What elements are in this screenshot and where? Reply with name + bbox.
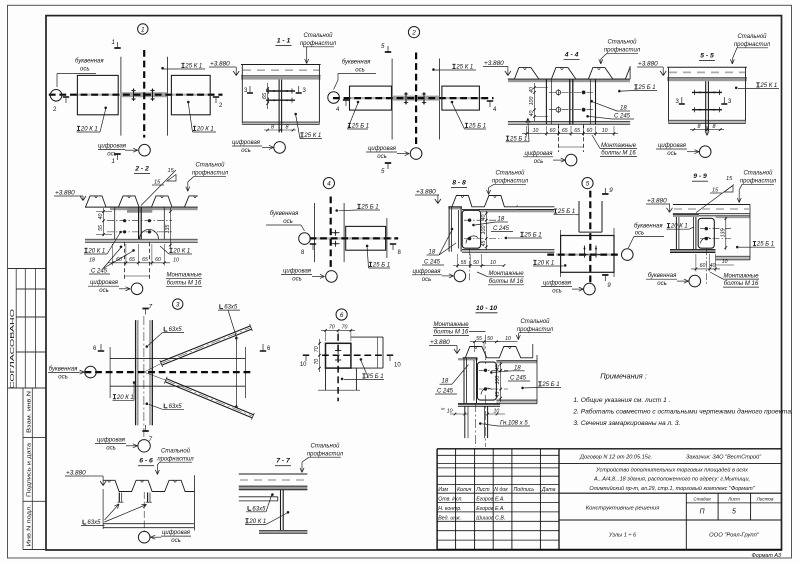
svg-text:25 Б 1: 25 Б 1 [372, 263, 390, 269]
svg-text:Монтажные: Монтажные [166, 273, 202, 279]
svg-text:буквенная: буквенная [75, 59, 104, 65]
svg-text:10: 10 [173, 257, 179, 263]
svg-text:+3.880: +3.880 [210, 61, 230, 68]
svg-text:60: 60 [700, 263, 706, 269]
svg-text:20 К 1: 20 К 1 [80, 127, 98, 133]
svg-text:40: 40 [529, 111, 535, 117]
svg-text:профнастил: профнастил [492, 179, 529, 185]
svg-text:25 Б 1: 25 Б 1 [541, 382, 559, 388]
svg-text:25 Б 1: 25 Б 1 [365, 374, 383, 380]
svg-text:Листов: Листов [756, 497, 774, 502]
svg-text:Стальной: Стальной [607, 39, 637, 46]
svg-text:8: 8 [698, 124, 701, 130]
svg-text:Заказчик: ЗАО "ВестСтрой": Заказчик: ЗАО "ВестСтрой" [686, 454, 762, 461]
svg-text:ООО "Роял-Групп": ООО "Роял-Групп" [709, 533, 760, 539]
svg-text:профнастил: профнастил [604, 48, 641, 54]
svg-text:65: 65 [142, 257, 148, 263]
svg-text:цифровая: цифровая [90, 280, 119, 286]
svg-text:3. Сечения замаркированы на: 3. Сечения замаркированы на л. 3. [573, 420, 680, 427]
svg-text:Стальной: Стальной [161, 447, 191, 454]
svg-text:60: 60 [587, 128, 593, 134]
svg-text:4: 4 [327, 181, 331, 188]
svg-text:1: 1 [112, 158, 115, 165]
svg-text:Колич: Колич [457, 487, 472, 493]
svg-text:буквенная: буквенная [634, 223, 663, 229]
svg-text:20 К 1: 20 К 1 [670, 224, 688, 230]
svg-text:18: 18 [442, 379, 449, 385]
svg-text:профнастил: профнастил [300, 41, 337, 47]
svg-text:профнастил: профнастил [734, 42, 771, 48]
svg-text:20 К 1: 20 К 1 [87, 249, 105, 255]
svg-text:+3.880: +3.880 [638, 61, 658, 68]
svg-text:45: 45 [495, 392, 501, 398]
svg-text:ось: ось [292, 277, 302, 283]
svg-text:Узлы 1 ÷ 6: Узлы 1 ÷ 6 [608, 533, 637, 539]
svg-text:25 К 1: 25 К 1 [303, 133, 321, 139]
svg-text:15: 15 [154, 180, 161, 186]
svg-text:18: 18 [620, 106, 627, 112]
svg-text:20 К 1: 20 К 1 [172, 249, 190, 255]
svg-text:Вед. инж.: Вед. инж. [438, 516, 461, 522]
svg-text:Стальной: Стальной [495, 170, 525, 177]
svg-text:С 245: С 245 [510, 376, 527, 382]
svg-text:4 - 4: 4 - 4 [564, 52, 579, 59]
svg-text:5: 5 [732, 509, 736, 516]
svg-text:5 - 5: 5 - 5 [700, 53, 714, 60]
svg-text:ось: ось [534, 159, 544, 165]
svg-text:2: 2 [411, 30, 416, 37]
svg-text:50: 50 [473, 260, 479, 266]
svg-text:цифровая: цифровая [162, 530, 191, 536]
svg-text:ось: ось [377, 154, 387, 160]
svg-text:63х5: 63х5 [169, 327, 183, 333]
svg-text:25 Б 1: 25 Б 1 [557, 209, 575, 215]
svg-text:Формат А3: Формат А3 [752, 553, 782, 559]
svg-text:ось: ось [355, 68, 365, 74]
svg-text:болты М 16: болты М 16 [724, 281, 759, 287]
svg-text:25 К 1: 25 К 1 [455, 65, 473, 71]
svg-text:25 Б 1: 25 Б 1 [523, 233, 541, 239]
svg-text:8: 8 [271, 124, 274, 130]
svg-text:25 Б 1: 25 Б 1 [360, 205, 378, 211]
svg-text:А...А/4,8...18 здания, располо: А...А/4,8...18 здания, расположенного по… [593, 477, 750, 483]
svg-text:N док: N док [494, 487, 508, 493]
svg-text:135: 135 [720, 229, 726, 238]
svg-text:Стадия: Стадия [693, 497, 711, 502]
svg-text:6: 6 [340, 312, 344, 319]
svg-text:Монтажные: Монтажные [723, 274, 759, 280]
svg-text:63х5: 63х5 [87, 520, 101, 526]
svg-text:45: 45 [481, 241, 487, 247]
svg-text:70: 70 [342, 325, 348, 331]
svg-text:+3.880: +3.880 [55, 190, 75, 197]
svg-text:ось: ось [80, 67, 90, 73]
svg-text:С 245: С 245 [493, 226, 510, 232]
svg-text:100: 100 [481, 226, 487, 235]
svg-text:Стальной: Стальной [303, 32, 333, 39]
svg-text:ось: ось [283, 219, 293, 225]
svg-text:100: 100 [529, 97, 535, 106]
svg-text:25 К 1: 25 К 1 [759, 83, 777, 89]
svg-text:18: 18 [514, 365, 521, 371]
svg-text:Егоров Е.А.: Егоров Е.А. [476, 506, 505, 512]
svg-text:20 К 1: 20 К 1 [196, 127, 214, 133]
svg-text:63х5: 63х5 [169, 404, 183, 410]
svg-text:ось: ось [667, 151, 677, 157]
svg-text:5: 5 [586, 181, 590, 188]
svg-text:1 - 1: 1 - 1 [277, 38, 291, 45]
svg-text:50: 50 [487, 336, 493, 342]
svg-text:7: 7 [149, 436, 153, 443]
svg-text:ось: ось [241, 148, 251, 154]
svg-text:40: 40 [710, 263, 716, 269]
svg-text:25 Б 1: 25 Б 1 [509, 136, 527, 142]
svg-text:10 - 10: 10 - 10 [476, 305, 497, 312]
svg-text:1: 1 [141, 26, 145, 33]
svg-text:буквенная: буквенная [270, 211, 299, 217]
svg-text:С 245: С 245 [424, 260, 441, 266]
svg-text:40: 40 [495, 365, 501, 371]
svg-text:Устройство дополнительных торг: Устройство дополнительных торговых площа… [595, 467, 748, 474]
svg-text:ось: ось [635, 230, 645, 236]
svg-text:2: 2 [53, 106, 57, 113]
svg-text:ось: ось [107, 152, 117, 158]
svg-text:+3.880: +3.880 [484, 60, 504, 67]
svg-text:Подпись: Подпись [514, 487, 535, 493]
svg-text:60: 60 [155, 257, 161, 263]
svg-text:25 Б 1: 25 Б 1 [468, 124, 486, 130]
svg-text:60: 60 [550, 128, 556, 134]
svg-text:5: 5 [441, 407, 446, 410]
svg-text:+3.880: +3.880 [416, 189, 436, 196]
svg-text:10: 10 [533, 128, 539, 134]
svg-text:С 245: С 245 [91, 269, 108, 275]
svg-text:цифровая: цифровая [97, 437, 126, 443]
svg-text:63х5: 63х5 [252, 506, 266, 512]
svg-text:цифровая: цифровая [232, 140, 261, 146]
svg-text:цифровая: цифровая [525, 151, 554, 157]
svg-text:цифровая: цифровая [543, 280, 572, 286]
svg-text:8: 8 [713, 124, 716, 130]
svg-text:25 К 1: 25 К 1 [184, 64, 202, 70]
svg-text:10: 10 [602, 128, 608, 134]
svg-text:40: 40 [98, 214, 104, 220]
svg-text:8: 8 [286, 124, 289, 130]
svg-text:Взам. инв.N: Взам. инв.N [26, 391, 32, 433]
svg-text:10: 10 [722, 259, 728, 265]
svg-text:ось: ось [552, 288, 562, 294]
svg-text:Изм: Изм [438, 487, 448, 493]
svg-text:25 Б 1: 25 Б 1 [637, 85, 655, 91]
svg-text:Олимпийский пр-т, вл.29, стр.1: Олимпийский пр-т, вл.29, стр.1, торговый… [589, 485, 755, 492]
svg-text:цифровая: цифровая [413, 269, 442, 275]
svg-text:цифровая: цифровая [283, 269, 312, 275]
svg-text:буквенная: буквенная [648, 273, 677, 279]
svg-text:ось: ось [99, 288, 109, 294]
svg-text:Стальной: Стальной [195, 162, 225, 169]
svg-text:профнастил: профнастил [157, 456, 194, 462]
svg-text:Стальной: Стальной [520, 318, 550, 325]
svg-text:болты М 16: болты М 16 [489, 279, 524, 285]
svg-text:ось: ось [106, 445, 116, 451]
svg-text:15: 15 [168, 168, 175, 174]
svg-text:20 К 1: 20 К 1 [248, 519, 266, 525]
svg-text:65: 65 [574, 128, 580, 134]
svg-text:8 - 8: 8 - 8 [452, 180, 466, 187]
svg-text:профнастил: профнастил [740, 179, 777, 185]
svg-text:40: 40 [529, 87, 535, 93]
svg-text:25 Б 1: 25 Б 1 [756, 242, 774, 248]
svg-text:болты М 16: болты М 16 [434, 329, 469, 335]
svg-text:40: 40 [481, 215, 487, 221]
svg-text:Егоров Е.А.: Егоров Е.А. [476, 497, 505, 503]
svg-text:+3.880: +3.880 [66, 470, 86, 477]
svg-text:2. Работать совместно с ос: 2. Работать совместно с остальными черте… [572, 408, 793, 416]
svg-text:Конструктивные решения: Конструктивные решения [586, 506, 660, 512]
svg-text:100: 100 [495, 376, 501, 385]
svg-text:9 - 9: 9 - 9 [693, 173, 707, 180]
svg-text:18: 18 [498, 217, 505, 223]
svg-text:профнастил: профнастил [517, 327, 554, 333]
svg-text:70: 70 [329, 325, 335, 331]
svg-text:Стальной: Стальной [310, 442, 340, 449]
svg-text:5: 5 [381, 43, 385, 50]
svg-text:9: 9 [609, 187, 613, 194]
svg-text:Отв. Исп.: Отв. Исп. [438, 497, 463, 503]
svg-text:ось: ось [171, 538, 181, 544]
svg-text:55: 55 [476, 336, 482, 342]
svg-text:болты М 16: болты М 16 [601, 151, 636, 157]
svg-text:70: 70 [314, 346, 320, 352]
svg-text:профнастил: профнастил [192, 171, 229, 177]
svg-text:Договор N 12 от 20.05.15г.: Договор N 12 от 20.05.15г. [579, 455, 652, 461]
svg-text:10: 10 [394, 363, 401, 369]
svg-text:Стальной: Стальной [743, 170, 773, 177]
svg-text:10: 10 [505, 336, 511, 342]
svg-text:Подпись и дата: Подпись и дата [26, 443, 32, 497]
svg-text:1. Общие указания см. лист: 1. Общие указания см. лист 1 . [573, 396, 670, 404]
svg-text:+3.880: +3.880 [647, 198, 667, 205]
svg-text:Лист: Лист [727, 497, 740, 502]
svg-text:цифровая: цифровая [98, 144, 127, 150]
svg-text:Примечания :: Примечания : [600, 372, 647, 381]
svg-text:20 К 1: 20 К 1 [116, 395, 134, 401]
svg-text:Монтажные: Монтажные [601, 143, 637, 149]
svg-text:Шишов С.В.: Шишов С.В. [476, 516, 505, 522]
svg-text:Монтажные: Монтажные [488, 271, 524, 277]
svg-text:10: 10 [447, 408, 453, 414]
svg-text:цифровая: цифровая [658, 143, 687, 149]
svg-text:10: 10 [490, 260, 496, 266]
svg-text:Н. контр.: Н. контр. [438, 506, 461, 512]
svg-text:135: 135 [165, 225, 171, 234]
svg-text:Гн.108 х 5: Гн.108 х 5 [500, 421, 528, 427]
svg-text:9: 9 [607, 282, 611, 289]
svg-text:болты М 16: болты М 16 [167, 280, 202, 286]
svg-text:1: 1 [112, 39, 115, 46]
svg-text:профнастил: профнастил [307, 451, 344, 457]
svg-text:15: 15 [712, 188, 719, 194]
svg-text:Дата: Дата [541, 487, 556, 493]
svg-text:63х5: 63х5 [224, 305, 238, 311]
svg-text:СОГЛАСОВАНО: СОГЛАСОВАНО [10, 308, 16, 389]
svg-text:С 245: С 245 [437, 389, 454, 395]
svg-text:7 - 7: 7 - 7 [276, 458, 291, 465]
svg-text:10: 10 [494, 408, 500, 414]
svg-text:2 - 2: 2 - 2 [134, 166, 149, 173]
svg-text:10: 10 [300, 362, 307, 368]
svg-text:Стальной: Стальной [737, 33, 767, 40]
svg-text:65: 65 [262, 92, 268, 99]
svg-text:55: 55 [98, 225, 104, 231]
svg-text:буквенная: буквенная [342, 60, 371, 66]
svg-text:Инв.N подл.: Инв.N подл. [26, 505, 32, 547]
svg-text:6 - 6: 6 - 6 [139, 458, 153, 465]
svg-text:70: 70 [314, 359, 320, 365]
svg-text:15: 15 [726, 176, 733, 182]
svg-text:ось: ось [657, 281, 667, 287]
svg-text:18: 18 [429, 250, 436, 256]
svg-text:18: 18 [89, 257, 95, 263]
svg-text:+3.880: +3.880 [430, 339, 450, 346]
svg-text:7: 7 [149, 304, 153, 311]
svg-text:Лист: Лист [475, 487, 490, 493]
svg-text:25 Б 1: 25 Б 1 [351, 124, 369, 130]
svg-text:Монтажные: Монтажные [433, 322, 469, 328]
svg-text:цифровая: цифровая [368, 146, 397, 152]
svg-text:55: 55 [461, 260, 467, 266]
svg-text:ось: ось [422, 277, 432, 283]
svg-text:буквенная: буквенная [49, 367, 78, 373]
svg-text:5: 5 [381, 168, 385, 175]
svg-text:3: 3 [176, 301, 180, 308]
svg-text:ось: ось [58, 375, 68, 381]
svg-text:20 К 1: 20 К 1 [536, 261, 554, 267]
svg-text:65: 65 [562, 128, 568, 134]
svg-text:65: 65 [129, 257, 135, 263]
